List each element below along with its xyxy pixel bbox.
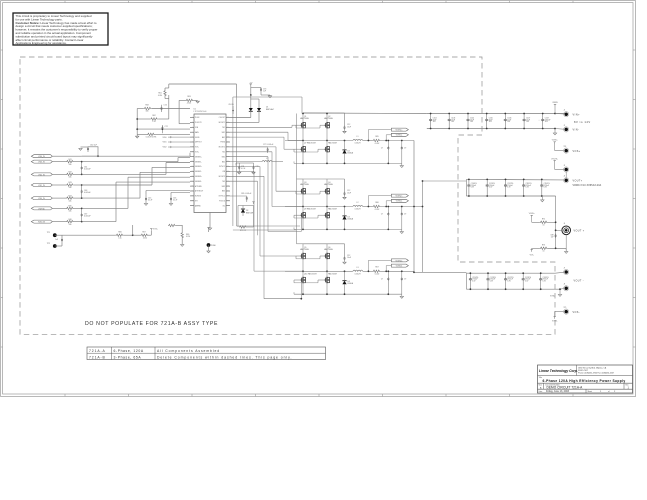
svg-text:SW2: SW2 [222,156,225,158]
wire vosense taps phase 1 [367,130,369,141]
output capacitor bank 1 [466,178,563,181]
svg-text:VID3_IN: VID3_IN [38,162,45,164]
gate drive wire bundle [230,126,292,128]
svg-text:VID2_IN: VID2_IN [38,174,45,176]
svg-text:DIFFOUT: DIFFOUT [195,142,202,144]
wire pgnd rail phase 2 [293,227,295,229]
svg-text:R72: R72 [542,219,545,221]
svg-text:R63: R63 [187,96,190,98]
svg-text:Size: Size [539,384,542,386]
terminal J2 VIN- [555,128,564,131]
svg-text:2700uF: 2700uF [507,279,512,281]
wire pgnd rail phase 3 [293,292,295,294]
connector J12 VID2_IN [31,173,52,176]
svg-text:C124PG: C124PG [543,277,550,279]
capacitor C107 bulk electrolytic [542,114,544,118]
node VOSNS3- flag [391,264,408,267]
svg-text:C60 1uF: C60 1uF [90,145,98,147]
capacitor C74 [161,105,163,107]
connector J13 VID1_IN [31,184,52,187]
svg-text:VOSN+: VOSN+ [552,140,558,142]
ground [400,296,403,298]
svg-text:BAT54A-7: BAT54A-7 [266,108,274,111]
svg-text:C72: C72 [165,126,168,128]
svg-text:SENSE2+: SENSE2+ [195,166,202,168]
svg-text:0.01uF/4.99k: 0.01uF/4.99k [146,136,157,138]
page outer border [1,1,636,397]
node VOSNS1- flag [391,133,408,136]
svg-text:2700uF: 2700uF [471,185,476,187]
capacitor C114 output bank1 [541,179,543,183]
svg-text:Q9 HAT2165H: Q9 HAT2165H [304,208,316,211]
node VOS- flag tag [554,317,556,319]
svg-text:BOOST1: BOOST1 [219,122,225,124]
node +5V2 tag [253,202,255,204]
svg-text:J3: J3 [564,165,566,167]
svg-text:C111PG: C111PG [489,183,496,185]
resistor R69 vertical [181,225,183,232]
node VOSNS3+ flag [391,259,408,262]
svg-text:C112PG: C112PG [507,183,514,185]
svg-text:0.56uH: 0.56uH [355,209,361,211]
resistor R60 [137,133,147,135]
ground [554,129,556,134]
capacitor C73 [251,87,261,89]
ground [542,196,544,200]
svg-text:BAT54W: BAT54W [246,211,253,214]
capacitor C bypass phase 1 [344,113,346,126]
svg-text:+: + [504,278,505,280]
svg-text:RUN/SS: RUN/SS [195,196,201,198]
capacitor C bypass phase 3 [344,244,346,256]
node VOS- tag lower [531,250,533,252]
transistor Q11 lower pair phase 3 [301,278,303,283]
inductor L2 phase 2 [353,205,363,206]
transistor Q3 upper pair phase 2 [301,189,303,194]
svg-text:VOSN-: VOSN- [552,321,558,323]
svg-text:+: + [539,278,540,280]
ground [208,228,211,230]
wire vout sense vertical [555,196,557,248]
svg-text:SENSE1-: SENSE1- [195,161,202,163]
wire VIN rail [303,112,427,115]
connector J11 VID3_IN [31,160,52,163]
output capacitor bank 2 [466,272,555,274]
svg-text:B340A: B340A [348,151,354,154]
svg-text:LTC1629CG-6: LTC1629CG-6 [194,111,208,113]
svg-text:HAT2168H: HAT2168H [324,183,333,186]
inductor L7 intvcc filter [230,161,262,163]
svg-text:B340A: B340A [348,217,354,220]
svg-text:ITH: ITH [195,201,198,203]
svg-text:HAT2168H: HAT2168H [300,248,309,251]
svg-text:0.1uF: 0.1uF [148,200,152,202]
capacitor C111 output bank1 [486,179,488,183]
wire aux route [230,180,258,182]
svg-text:HAT2168H: HAT2168H [300,183,309,186]
svg-text:VOUT+: VOUT+ [573,179,583,182]
svg-text:2700uF: 2700uF [472,279,477,281]
svg-text:Q7 HAT2165H: Q7 HAT2165H [304,142,316,145]
diode D3 BAT54 [237,206,239,225]
svg-text:10k: 10k [69,177,72,179]
svg-text:VIN: VIN [222,171,225,173]
svg-text:2700uF: 2700uF [543,279,548,281]
svg-text:VOSb-: VOSb- [550,296,556,298]
wire BG3 under-route [230,175,264,177]
svg-text:VOSN3+: VOSN3+ [396,260,403,262]
ground [79,148,82,150]
svg-text:C81 0.001uF: C81 0.001uF [241,193,252,195]
svg-text:0.56uH: 0.56uH [355,274,361,276]
diode D1a BAT54A [250,95,252,108]
svg-text:0.001uF: 0.001uF [84,216,91,218]
svg-text:DEMO CIRCUIT 721A-A: DEMO CIRCUIT 721A-A [547,385,584,389]
svg-text:VOUT +: VOUT + [574,230,585,233]
svg-text:0.002: 0.002 [375,209,380,211]
svg-text:Date:: Date: [539,390,544,393]
svg-text:R65: R65 [375,136,378,138]
capacitor C63 [81,185,83,189]
svg-text:VOSN+: VOSN+ [529,213,535,215]
terminal J1 VIN+ [555,113,564,115]
svg-text:L1: L1 [357,136,359,138]
svg-text:10uF: 10uF [347,192,351,194]
svg-text:BOOST2: BOOST2 [219,147,225,149]
svg-text:VOS-: VOS- [195,147,199,149]
svg-text:0.002: 0.002 [375,274,380,276]
svg-text:C9: C9 [404,214,406,216]
svg-text:PGND: PGND [211,245,217,247]
sense resistor R66 [373,205,381,207]
svg-text:6-Phase 120A High Efficiency P: 6-Phase 120A High Efficiency Power Suppl… [542,379,625,383]
svg-text:VID2: VID2 [163,147,167,149]
svg-text:SW1: SW1 [222,132,225,134]
inductor L3 phase 3 [353,270,363,271]
svg-text:VID0_IN: VID0_IN [38,198,45,200]
svg-text:TP2: TP2 [47,243,50,245]
svg-text:+: + [486,278,487,280]
wire SW rail phase 1 [285,140,353,142]
svg-text:8V to 14V: 8V to 14V [574,120,591,124]
svg-text:C110PG: C110PG [471,183,478,185]
svg-text:VOSN1-: VOSN1- [396,135,403,137]
svg-text:DO NOT POPULATE FOR 721A-B ASS: DO NOT POPULATE FOR 721A-B ASSY TYPE [85,321,218,327]
ground [343,197,346,199]
svg-text:R58: R58 [145,105,148,107]
svg-text:SW3: SW3 [222,186,225,188]
svg-text:10uF: 10uF [347,126,351,128]
svg-text:C114PG: C114PG [544,183,551,185]
svg-text:R66: R66 [118,231,121,233]
svg-text:R62: R62 [152,115,155,117]
wire output bus [413,141,415,273]
capacitor C104 input [467,114,469,118]
svg-text:0.1k: 0.1k [118,237,121,239]
svg-text:0.002: 0.002 [375,143,380,145]
VID input arrows [168,136,172,138]
svg-text:J2: J2 [564,125,566,127]
svg-text:VIDPGD: VIDPGD [38,208,45,210]
compensation RC network [136,109,138,135]
capacitor C124 output bank2 [540,273,542,277]
svg-text:2700uF: 2700uF [525,279,530,281]
ground [268,96,271,98]
terminal J7 VOUT- upper [555,271,564,274]
svg-text:0.001uF: 0.001uF [84,192,91,194]
svg-text:Phone: (408)432-1900 Fax: (408: Phone: (408)432-1900 Fax: (408)434-0507 [578,373,614,375]
svg-text:HAT2165H: HAT2165H [328,272,337,275]
svg-text:C7: C7 [381,148,383,150]
node VOUT tag upper [554,161,556,163]
diode D2 B340A phase 1 [342,149,346,151]
svg-text:+: + [504,185,505,187]
svg-text:SENSE2-: SENSE2- [195,171,202,173]
resistor R45 [66,207,74,209]
svg-text:+: + [486,185,487,187]
svg-text:All Components Assembled: All Components Assembled [157,349,220,353]
svg-text:C79: C79 [256,166,259,168]
svg-text:Sheet: Sheet [588,390,593,393]
title block [538,365,633,393]
svg-text:BOOST3: BOOST3 [219,176,225,178]
capacitor C110 output bank1 [468,179,470,183]
page inner border [3,3,633,394]
svg-text:R73: R73 [542,245,545,247]
filter caps phase 2 [385,207,387,213]
svg-text:VOS-: VOS- [530,254,535,256]
svg-text:VINSN: VINSN [552,102,558,104]
svg-text:PGOOD: PGOOD [219,201,226,203]
transistor Q5 upper pair phase 3 [301,254,303,259]
svg-text:+: + [522,185,523,187]
svg-text:2700uF: 2700uF [544,185,549,187]
svg-text:VOSN3-: VOSN3- [396,266,403,268]
svg-text:2700uF: 2700uF [507,185,512,187]
svg-text:SENSE3+: SENSE3+ [195,176,202,178]
svg-text:TG3: TG3 [222,181,225,183]
diode D1b BAT54A [251,98,259,100]
terminal J8 VOUT- lower [560,288,564,291]
svg-text:R67: R67 [142,231,145,233]
resistor R62 [137,118,150,120]
resistor R72 [532,221,540,223]
wire vosense taps phase 3 [367,260,369,271]
svg-text:C7: C7 [381,278,383,280]
svg-text:C122PG: C122PG [507,277,514,279]
resistor R43 [66,184,74,186]
input capacitor bank [427,113,566,115]
svg-text:45.3k: 45.3k [143,237,147,239]
node VOSNS1+ flag [391,128,408,131]
svg-text:R44: R44 [68,195,71,197]
long verticals beside U1 [232,97,234,226]
svg-text:R41: R41 [68,159,71,161]
svg-text:CLKOUT: CLKOUT [219,117,225,119]
svg-text:SENSE1+: SENSE1+ [195,156,202,158]
ground [238,172,241,174]
svg-text:FCB: FCB [195,127,198,129]
wire BG2 under-route [230,156,268,158]
svg-text:10k: 10k [69,200,72,202]
resistor R58 [144,107,152,109]
capacitor C122 output bank2 [505,273,507,277]
diode D3 B340A phase 2 [342,215,346,217]
inductor L1 phase 1 [353,139,363,140]
resistor R67 [133,234,141,236]
connector J10 VID4_IN [31,155,52,158]
svg-text:VID1_IN: VID1_IN [38,185,45,187]
svg-text:VID0: VID0 [163,137,167,139]
resistor R71 [239,226,247,228]
resistor R68 [168,224,176,226]
capacitor C67 [81,208,83,213]
ground [196,101,199,103]
svg-text:+: + [469,278,470,280]
svg-text:VRM9.X/10.X865A/120A: VRM9.X/10.X865A/120A [573,184,602,187]
wire vosense taps phase 2 [367,196,369,207]
svg-text:VIN-: VIN- [573,129,580,132]
svg-text:10k: 10k [69,164,72,166]
wire drain bus verticals [296,114,298,244]
border zone ticks [64,1,66,3]
svg-text:TP4: TP4 [564,146,567,148]
svg-text:PLLFLTR: PLLFLTR [195,122,202,124]
sense resistor R65 [373,139,381,141]
svg-text:10k: 10k [146,111,149,113]
customer notice box [13,13,108,45]
wire to upper circuit [132,225,134,235]
capacitor C61 [81,162,83,166]
svg-text:0.56uH: 0.56uH [355,143,361,145]
test point PGND TP3 [207,243,211,247]
svg-text:C77 0.001uF: C77 0.001uF [263,144,274,146]
svg-text:VID1: VID1 [163,142,167,144]
svg-text:VOSN1+: VOSN1+ [396,130,403,132]
capacitor C120 output bank2 [469,273,471,277]
svg-text:1uF: 1uF [263,91,266,93]
capacitor C79 2.2uF [253,163,255,166]
svg-text:10k: 10k [69,224,72,226]
node VTTSNS tag [531,215,533,217]
wires connectors to U1 pins [82,155,190,157]
svg-text:C9: C9 [404,278,406,280]
sense resistor R67 [373,270,381,272]
svg-text:4.22k: 4.22k [186,236,190,238]
svg-text:0.001uF: 0.001uF [84,169,91,171]
svg-text:R43: R43 [68,182,71,184]
node VOSNS+ flag tag [554,142,556,144]
wire SW rail phase 3 [285,270,353,272]
capacitor C123 output bank2 [522,273,524,277]
svg-text:Title: Title [539,376,542,379]
capacitor C78 4.7uF [238,163,240,166]
svg-text:C121PG: C121PG [490,277,497,279]
resistor R61 vertical [164,90,166,96]
svg-text:C9: C9 [404,148,406,150]
ground [343,131,346,133]
capacitor C121 output bank2 [487,273,489,277]
node VOSNS2+ flag [391,194,408,197]
svg-text:1630 McCarthy Blvd. Milpitas,: 1630 McCarthy Blvd. Milpitas, CA [578,366,607,369]
svg-text:Applications Engineering for a: Applications Engineering for assistance. [16,41,67,45]
wire +5V rail above U1 [168,84,170,88]
node +5V tag [250,84,252,86]
ground [565,235,567,250]
svg-text:B340A: B340A [348,282,354,285]
svg-text:1uF: 1uF [55,239,58,241]
svg-text:VOS+: VOS+ [153,229,158,231]
svg-text:10k: 10k [69,211,72,213]
capacitor C72 [137,128,162,130]
svg-text:0.1uF: 0.1uF [173,200,177,202]
svg-text:R67: R67 [375,267,378,269]
svg-text:EXTVCC: EXTVCC [219,196,226,198]
svg-text:TP1: TP1 [47,232,50,234]
capacitor C15 [145,194,147,197]
svg-text:721A-A: 721A-A [89,349,106,353]
svg-text:RUN_SS: RUN_SS [38,222,46,224]
svg-text:C74: C74 [164,104,167,106]
svg-text:CLKIN: CLKIN [228,104,234,106]
svg-text:VIN+: VIN+ [573,113,581,116]
svg-text:3-Phase, 65A: 3-Phase, 65A [114,355,142,359]
svg-text:10: 10 [543,250,545,252]
filter caps phase 3 [385,271,387,277]
svg-text:2700uF: 2700uF [490,279,495,281]
svg-text:J8: J8 [564,284,566,286]
svg-text:TG2: TG2 [222,152,225,154]
svg-text:4.7uF: 4.7uF [241,168,245,170]
svg-text:2700uF: 2700uF [526,185,531,187]
ground [252,172,255,174]
transistor Q1 upper pair phase 1 [301,123,303,128]
wire right bus to U1 [168,95,170,119]
wire SW rail phase 2 [285,206,353,208]
svg-text:VOSN2+: VOSN2+ [396,196,403,198]
connector J16 RUN_SS [31,220,52,223]
svg-text:VID4_IN: VID4_IN [38,156,45,158]
node VOSENSE [150,229,152,231]
connector J14 VID0_IN [31,197,52,200]
svg-text:+: + [538,120,539,122]
svg-text:VOUTS+: VOUTS+ [551,158,558,160]
svg-text:Linear Technology Corp.: Linear Technology Corp. [539,369,578,373]
wire boost feeds [250,111,252,118]
svg-text:R66: R66 [375,202,378,204]
svg-text:10: 10 [543,224,545,226]
svg-text:+: + [522,278,523,280]
node VINSNS tag [554,104,556,106]
wire pgnd rail phase 1 [293,161,295,163]
svg-text:C123PG: C123PG [525,277,532,279]
capacitor C107 input [523,114,525,118]
capacitor C103 input [448,114,450,118]
capacitor C80 [61,238,63,240]
ground [558,295,561,297]
svg-text:2700uF: 2700uF [489,185,494,187]
svg-text:+: + [467,185,468,187]
test point TP2 [53,244,57,248]
svg-text:TP5: TP5 [564,307,567,309]
svg-text:HAT2168H: HAT2168H [324,117,333,120]
ground [400,166,403,168]
ground [169,204,172,206]
svg-text:2.2k: 2.2k [152,121,155,123]
capacitor C88 [555,234,557,236]
assembly option table [87,347,326,360]
capacitor C113 output bank1 [523,179,525,183]
